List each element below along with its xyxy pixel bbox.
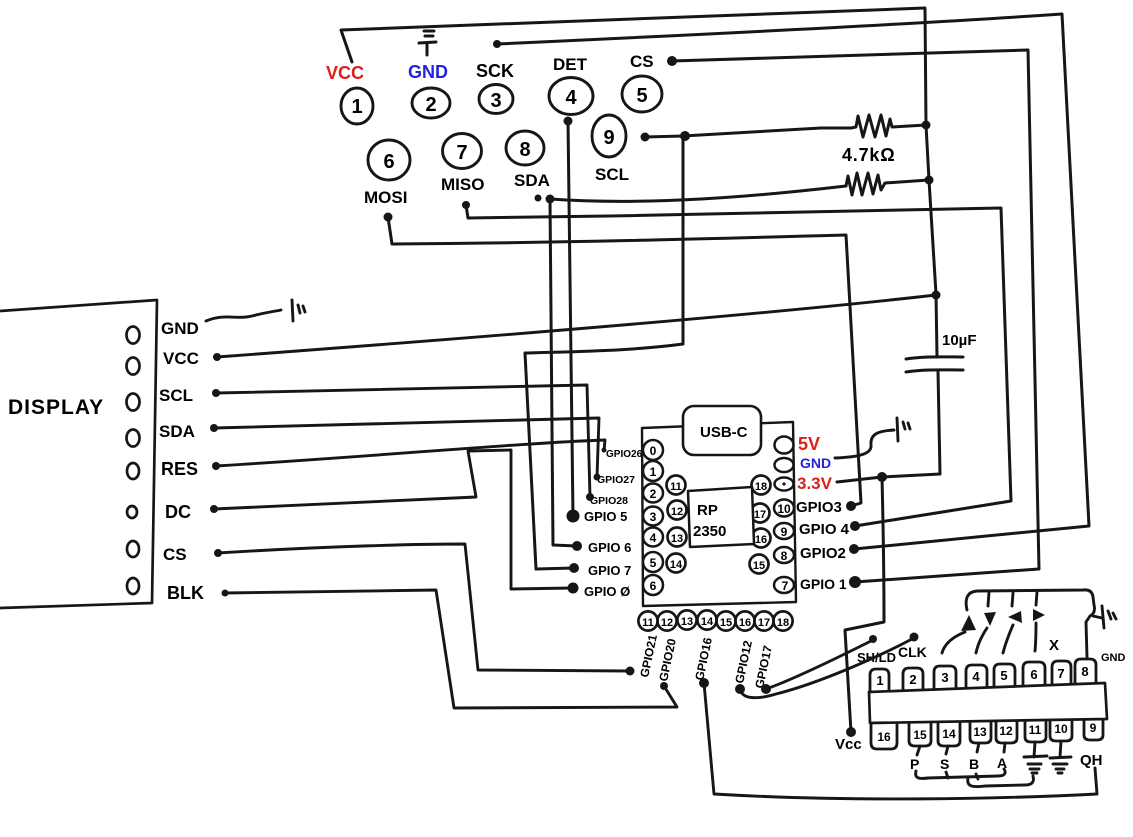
node dot display RES: [212, 462, 220, 470]
svg-text:5: 5: [636, 85, 647, 107]
length marker 1 inch shift register GND: [1102, 606, 1116, 628]
wire display BLK to GPIO20: [225, 590, 677, 708]
svg-text:7: 7: [1057, 666, 1064, 681]
svg-text:GPIO Ø: GPIO Ø: [584, 584, 630, 599]
node dot CS wire start: [667, 56, 677, 66]
svg-text:GND: GND: [161, 319, 199, 338]
board pad 5: [643, 552, 663, 572]
node dot GPIO5: [567, 510, 580, 523]
svg-text:RP: RP: [697, 502, 718, 519]
node dot GPIO0: [568, 583, 579, 594]
node dot GPIO17: [761, 684, 771, 694]
svg-text:5: 5: [650, 556, 657, 570]
wire display SCL to GPIO28: [216, 385, 590, 497]
board pad 10: [774, 500, 794, 517]
shift register bottom pin 10: [1050, 719, 1072, 741]
wire VCC net: pin1 stub up, top rail to right, down right side through resistor junctions to capacitor top: [341, 8, 937, 357]
svg-text:7: 7: [456, 142, 467, 164]
node dot GPIO12: [735, 684, 745, 694]
svg-text:1: 1: [876, 673, 883, 688]
board pad 4: [643, 528, 663, 547]
svg-text:16: 16: [755, 534, 767, 546]
svg-text:SCK: SCK: [476, 61, 514, 81]
svg-text:GND: GND: [408, 62, 448, 82]
shift register top pin 5: [994, 664, 1015, 687]
svg-text:9: 9: [781, 525, 788, 539]
bottom pin circle 17: [754, 611, 773, 630]
node dot GPIO27: [594, 474, 601, 481]
bottom pin circle 12: [657, 611, 676, 630]
svg-text:3: 3: [941, 670, 948, 685]
wire pin15 tick to P: [917, 746, 920, 755]
inner pin circle 17: [751, 504, 770, 523]
svg-text:MOSI: MOSI: [364, 188, 407, 207]
node dot GPIO4: [850, 521, 860, 531]
shift register bottom pin 15: [909, 722, 931, 746]
svg-text:CS: CS: [630, 52, 654, 71]
node dot GPIO21: [626, 667, 635, 676]
svg-text:17: 17: [754, 509, 766, 521]
svg-text:GPIO27: GPIO27: [597, 474, 635, 486]
svg-text:16: 16: [739, 617, 751, 629]
svg-text:BLK: BLK: [167, 583, 204, 603]
svg-text:GPIO21: GPIO21: [637, 633, 660, 679]
node dot display SCL: [212, 389, 220, 397]
pin circle 3: [479, 85, 513, 114]
svg-text:4: 4: [650, 531, 657, 545]
shift register bottom pin 16: [871, 723, 897, 749]
svg-text:10µF: 10µF: [942, 332, 977, 349]
svg-text:13: 13: [973, 725, 987, 739]
svg-text:A: A: [997, 755, 1007, 771]
wire GPIO12 to CLK: [740, 639, 912, 698]
shift register top pin 1: [870, 669, 889, 691]
wire SDA pin8 down to GPIO6: [550, 199, 577, 546]
board pad 6: [643, 575, 663, 595]
node dot GPIO7: [569, 563, 579, 573]
svg-text:SDA: SDA: [159, 422, 195, 441]
svg-text:6: 6: [650, 579, 657, 593]
junction dot VCC rail / display VCC: [932, 291, 941, 300]
svg-text:X: X: [1049, 637, 1059, 654]
pin circle 9: [592, 115, 626, 157]
shift register top pin 3: [934, 666, 956, 689]
svg-text:DET: DET: [553, 55, 588, 74]
board pad 3.3V: [775, 478, 794, 491]
svg-text:3: 3: [490, 90, 501, 112]
bottom pin circle 16: [735, 611, 754, 630]
ground symbol above GND pin2: [419, 31, 436, 55]
svg-text:8: 8: [781, 549, 788, 563]
junction dot SCL pin9 net: [680, 131, 690, 141]
shift register top pin 6: [1023, 662, 1045, 686]
svg-text:8: 8: [1081, 664, 1088, 679]
wire board GND pin to 1 inch marker: [835, 430, 894, 458]
svg-text:2350: 2350: [693, 523, 726, 540]
board pad 8: [774, 547, 794, 563]
svg-text:12: 12: [999, 724, 1013, 738]
svg-text:0: 0: [650, 444, 657, 458]
wire capacitor bottom down to 3.3V junction and to 3.3V pin: [837, 371, 940, 482]
svg-text:GPIO28: GPIO28: [590, 495, 628, 507]
svg-text:14: 14: [942, 727, 956, 741]
node dot SCK wire start: [493, 40, 501, 48]
wire GPIO16 to QH: [704, 683, 1097, 799]
svg-text:18: 18: [755, 481, 767, 493]
wire DET pin4 down to GPIO5: [568, 121, 573, 516]
svg-text:11: 11: [1029, 723, 1042, 737]
pin circle 1: [341, 88, 373, 124]
wire GPIO17 to SH/LD: [766, 641, 871, 689]
svg-text:GPIO12: GPIO12: [732, 639, 755, 685]
wire pin13 tick to B: [977, 743, 979, 752]
svg-text:GPIO 1: GPIO 1: [800, 576, 847, 592]
capacitor C1 top plate: [906, 357, 963, 359]
svg-text:4: 4: [972, 669, 980, 684]
button arrow left: [1008, 611, 1022, 623]
node dot display BLK: [222, 590, 229, 597]
svg-text:GPIO17: GPIO17: [752, 644, 775, 690]
svg-text:CS: CS: [163, 545, 187, 564]
svg-text:4: 4: [565, 87, 577, 109]
svg-text:CLK: CLK: [898, 644, 927, 660]
inner pin circle 13: [668, 528, 687, 547]
pin circle 4: [549, 78, 593, 115]
length marker 1 inch display GND: [292, 300, 305, 321]
wire pin14 tick to S: [946, 746, 948, 754]
svg-text:17: 17: [758, 617, 770, 629]
inner pin circle 16: [752, 529, 771, 548]
svg-text:4.7kΩ: 4.7kΩ: [842, 145, 895, 165]
wire SCL pin9 to junction: [645, 136, 683, 137]
display pin hole GND: [127, 327, 140, 344]
button arrow up: [961, 615, 976, 631]
node dot CLK: [910, 633, 919, 642]
svg-text:13: 13: [671, 533, 683, 545]
capacitor C1 bottom plate: [906, 370, 963, 372]
button arrow right: [1033, 609, 1045, 621]
wire display RES to GPIO26: [216, 440, 605, 466]
svg-text:5: 5: [1000, 668, 1007, 683]
svg-text:1: 1: [650, 465, 657, 479]
junction dot R2 right on VCC rail: [925, 176, 934, 185]
node dot display SDA: [210, 424, 218, 432]
board pad GND: [775, 458, 794, 472]
length marker 1 inch board GND: [897, 418, 910, 441]
microcontroller board U1 RP2350 outline: [642, 422, 796, 606]
wire pin4 to down arrow: [976, 628, 987, 653]
wire display GND stub: [206, 310, 281, 321]
node dot SCL wire start: [641, 133, 650, 142]
svg-text:P: P: [910, 756, 919, 772]
svg-text:GND: GND: [1101, 652, 1126, 664]
display pin hole RES: [127, 463, 139, 479]
bottom pin circle 11: [638, 611, 657, 630]
node dot GPIO26: [602, 448, 607, 453]
inner pin circle 11: [667, 476, 686, 495]
svg-text:1: 1: [351, 96, 362, 118]
wire bracket tick to left arrow: [1012, 593, 1013, 606]
svg-text:18: 18: [777, 617, 789, 629]
wire display DC to GPIO0: [214, 450, 573, 589]
shift register bottom pin 14: [938, 722, 960, 746]
svg-text:GPIO 4: GPIO 4: [799, 521, 850, 538]
svg-text:11: 11: [670, 481, 682, 493]
node dot display VCC: [213, 353, 221, 361]
wire SCL junction down, wavy left, down to GPIO7: [525, 136, 683, 569]
bottom pin circle 13: [677, 610, 696, 629]
bottom pin circle 18: [773, 611, 792, 630]
wire 3.3V junction down to shift register Vcc: [845, 477, 884, 732]
board pad 2: [643, 484, 663, 503]
junction dot R1 right on VCC rail: [922, 121, 931, 130]
ground symbol under pin 11: [1024, 742, 1047, 773]
svg-text:7: 7: [782, 579, 789, 593]
svg-text:11: 11: [642, 617, 654, 629]
node dot GPIO3: [846, 501, 856, 511]
display pin hole SDA: [127, 430, 140, 447]
svg-text:SCL: SCL: [159, 386, 193, 405]
svg-text:USB-C: USB-C: [700, 424, 748, 441]
shift register top pin 7: [1052, 661, 1071, 685]
node dot display CS: [214, 549, 222, 557]
shift register bottom pin 12: [996, 721, 1017, 743]
svg-text:14: 14: [701, 616, 714, 628]
board pad 0: [643, 440, 663, 460]
display pin hole SCL: [127, 394, 140, 411]
svg-text:RES: RES: [161, 459, 198, 479]
junction dot 3.3V net: [877, 472, 887, 482]
wire MOSI pin6 down, right at y242, down to GPIO3: [388, 217, 861, 506]
pin circle 6: [368, 140, 410, 180]
svg-text:15: 15: [913, 728, 927, 742]
svg-text:SDA: SDA: [514, 171, 550, 190]
svg-text:10: 10: [1054, 722, 1068, 736]
board pad 7: [774, 577, 794, 593]
wire SCL junction rising right to resistor R1: [683, 128, 851, 136]
wire SDA pin8 wavy right to resistor R2: [550, 186, 846, 201]
display pin hole VCC: [127, 358, 140, 375]
shift register U2 body: [869, 683, 1107, 723]
svg-text:GPIO26: GPIO26: [606, 449, 643, 460]
display pin hole CS: [127, 541, 139, 557]
shift register bottom pin 13: [970, 721, 991, 743]
board pad 3: [643, 507, 663, 526]
bottom pin circle 14: [697, 610, 716, 629]
chip RP2350 center box: [688, 487, 754, 547]
node dot MOSI: [384, 213, 393, 222]
display pin hole DC: [127, 506, 137, 518]
svg-text:GPIO16: GPIO16: [692, 636, 715, 682]
board pad 9: [774, 523, 794, 539]
svg-text:VCC: VCC: [163, 349, 199, 368]
wire display CS to GPIO21: [218, 544, 630, 671]
node dot SH/LD: [869, 635, 877, 643]
node dot display DC: [210, 505, 218, 513]
inner pin circle 12: [668, 501, 687, 520]
svg-text:5V: 5V: [798, 434, 820, 454]
svg-text:GND: GND: [800, 455, 831, 471]
USB-C connector block: [683, 406, 761, 455]
shift register bottom pin 11: [1025, 720, 1046, 742]
wire display VCC to VCC rail junction: [217, 295, 936, 357]
pin circle 8: [506, 131, 544, 165]
shift register top pin 2: [903, 668, 923, 690]
wire CS pin5 to right rail down to GPIO1: [672, 50, 1039, 582]
svg-text:14: 14: [670, 559, 683, 571]
svg-text:16: 16: [877, 730, 891, 744]
bottom pin circle 15: [716, 611, 735, 630]
node dot GPIO20: [660, 682, 668, 690]
button arrow down: [984, 612, 996, 626]
svg-text:2: 2: [909, 672, 916, 687]
node dot GPIO16: [699, 678, 709, 688]
wire bracket tick to right arrow: [1036, 592, 1037, 605]
wire bracket P S B A to pin11 ground: [968, 776, 1034, 787]
svg-text:12: 12: [661, 617, 673, 629]
svg-text:DC: DC: [165, 502, 191, 522]
svg-text:9: 9: [1090, 721, 1097, 735]
svg-text:15: 15: [720, 617, 732, 629]
svg-text:GPIO3: GPIO3: [796, 499, 842, 516]
wire MISO pin7 down, right at y218, down right side to GPIO4: [466, 205, 1011, 526]
wire pin6 to right arrow: [1035, 623, 1036, 651]
wire bracket tick to down arrow: [988, 592, 989, 606]
node dot GPIO6: [572, 541, 582, 551]
svg-text:8: 8: [519, 139, 530, 161]
node dot GPIO1: [849, 576, 861, 588]
svg-text:B: B: [969, 756, 979, 772]
shift register top pin 4: [966, 665, 987, 688]
resistor R2 zigzag: [846, 173, 929, 195]
node dot Vcc wire end: [846, 727, 856, 737]
board pad 1: [643, 461, 663, 481]
inner pin circle 15: [750, 555, 769, 574]
node dot SDA right: [546, 195, 555, 204]
wire pin3 to up arrow: [942, 632, 965, 653]
shift register top pin 8: [1075, 659, 1096, 684]
pin circle 5: [622, 76, 662, 112]
wire SCK pin3 to top-right rail down to GPIO2: [497, 14, 1089, 549]
svg-text:6: 6: [383, 151, 394, 173]
display pin hole BLK: [127, 578, 139, 594]
wire pin12 tick to A: [1004, 743, 1005, 752]
pin circle 7: [443, 134, 482, 169]
svg-text:DISPLAY: DISPLAY: [8, 396, 104, 419]
svg-text:QH: QH: [1080, 752, 1103, 769]
svg-text:3.3V: 3.3V: [797, 474, 833, 493]
shift register bottom pin 9: [1084, 719, 1103, 740]
svg-text:Vcc: Vcc: [835, 736, 862, 753]
svg-text:SCL: SCL: [595, 165, 629, 184]
board pad 5V: [775, 437, 794, 454]
node dot DET: [564, 117, 573, 126]
inner pin circle 14: [667, 554, 686, 573]
svg-text:10: 10: [777, 502, 791, 516]
svg-text:GPIO 6: GPIO 6: [588, 540, 631, 555]
wire bracket over arrow buttons: [966, 590, 1094, 657]
svg-text:15: 15: [753, 560, 765, 572]
svg-text:GPIO 5: GPIO 5: [584, 509, 627, 524]
svg-text:GPIO20: GPIO20: [656, 637, 679, 683]
svg-text:13: 13: [681, 616, 693, 628]
node dot GPIO28: [586, 493, 594, 501]
display module box: [0, 300, 157, 608]
wire display SDA to GPIO27: [214, 418, 599, 477]
pin circle 2: [412, 88, 450, 118]
wire pin5 to left arrow: [1003, 625, 1013, 653]
svg-text:GPIO2: GPIO2: [800, 545, 846, 562]
svg-text:GPIO 7: GPIO 7: [588, 563, 631, 578]
svg-text:12: 12: [671, 506, 683, 518]
svg-text:9: 9: [603, 127, 614, 149]
svg-text:6: 6: [1030, 667, 1037, 682]
svg-text:VCC: VCC: [326, 63, 364, 83]
inner pin circle 18: [752, 476, 771, 495]
svg-text:MISO: MISO: [441, 175, 484, 194]
svg-text:2: 2: [425, 94, 436, 116]
node dot GPIO2: [849, 544, 859, 554]
node dot SDA left: [535, 195, 542, 202]
node dot MISO: [462, 201, 470, 209]
wire bracket joining P S B A: [916, 769, 1005, 779]
svg-text:S: S: [940, 756, 949, 772]
wire pin8 up to GND 1 inch marker: [1093, 616, 1102, 618]
svg-text:3: 3: [650, 510, 657, 524]
ground symbol under pin 10: [1050, 741, 1071, 773]
node dot in 3.3V pad: [782, 482, 785, 485]
resistor R1 zigzag: [851, 115, 926, 137]
svg-text:2: 2: [650, 487, 657, 501]
